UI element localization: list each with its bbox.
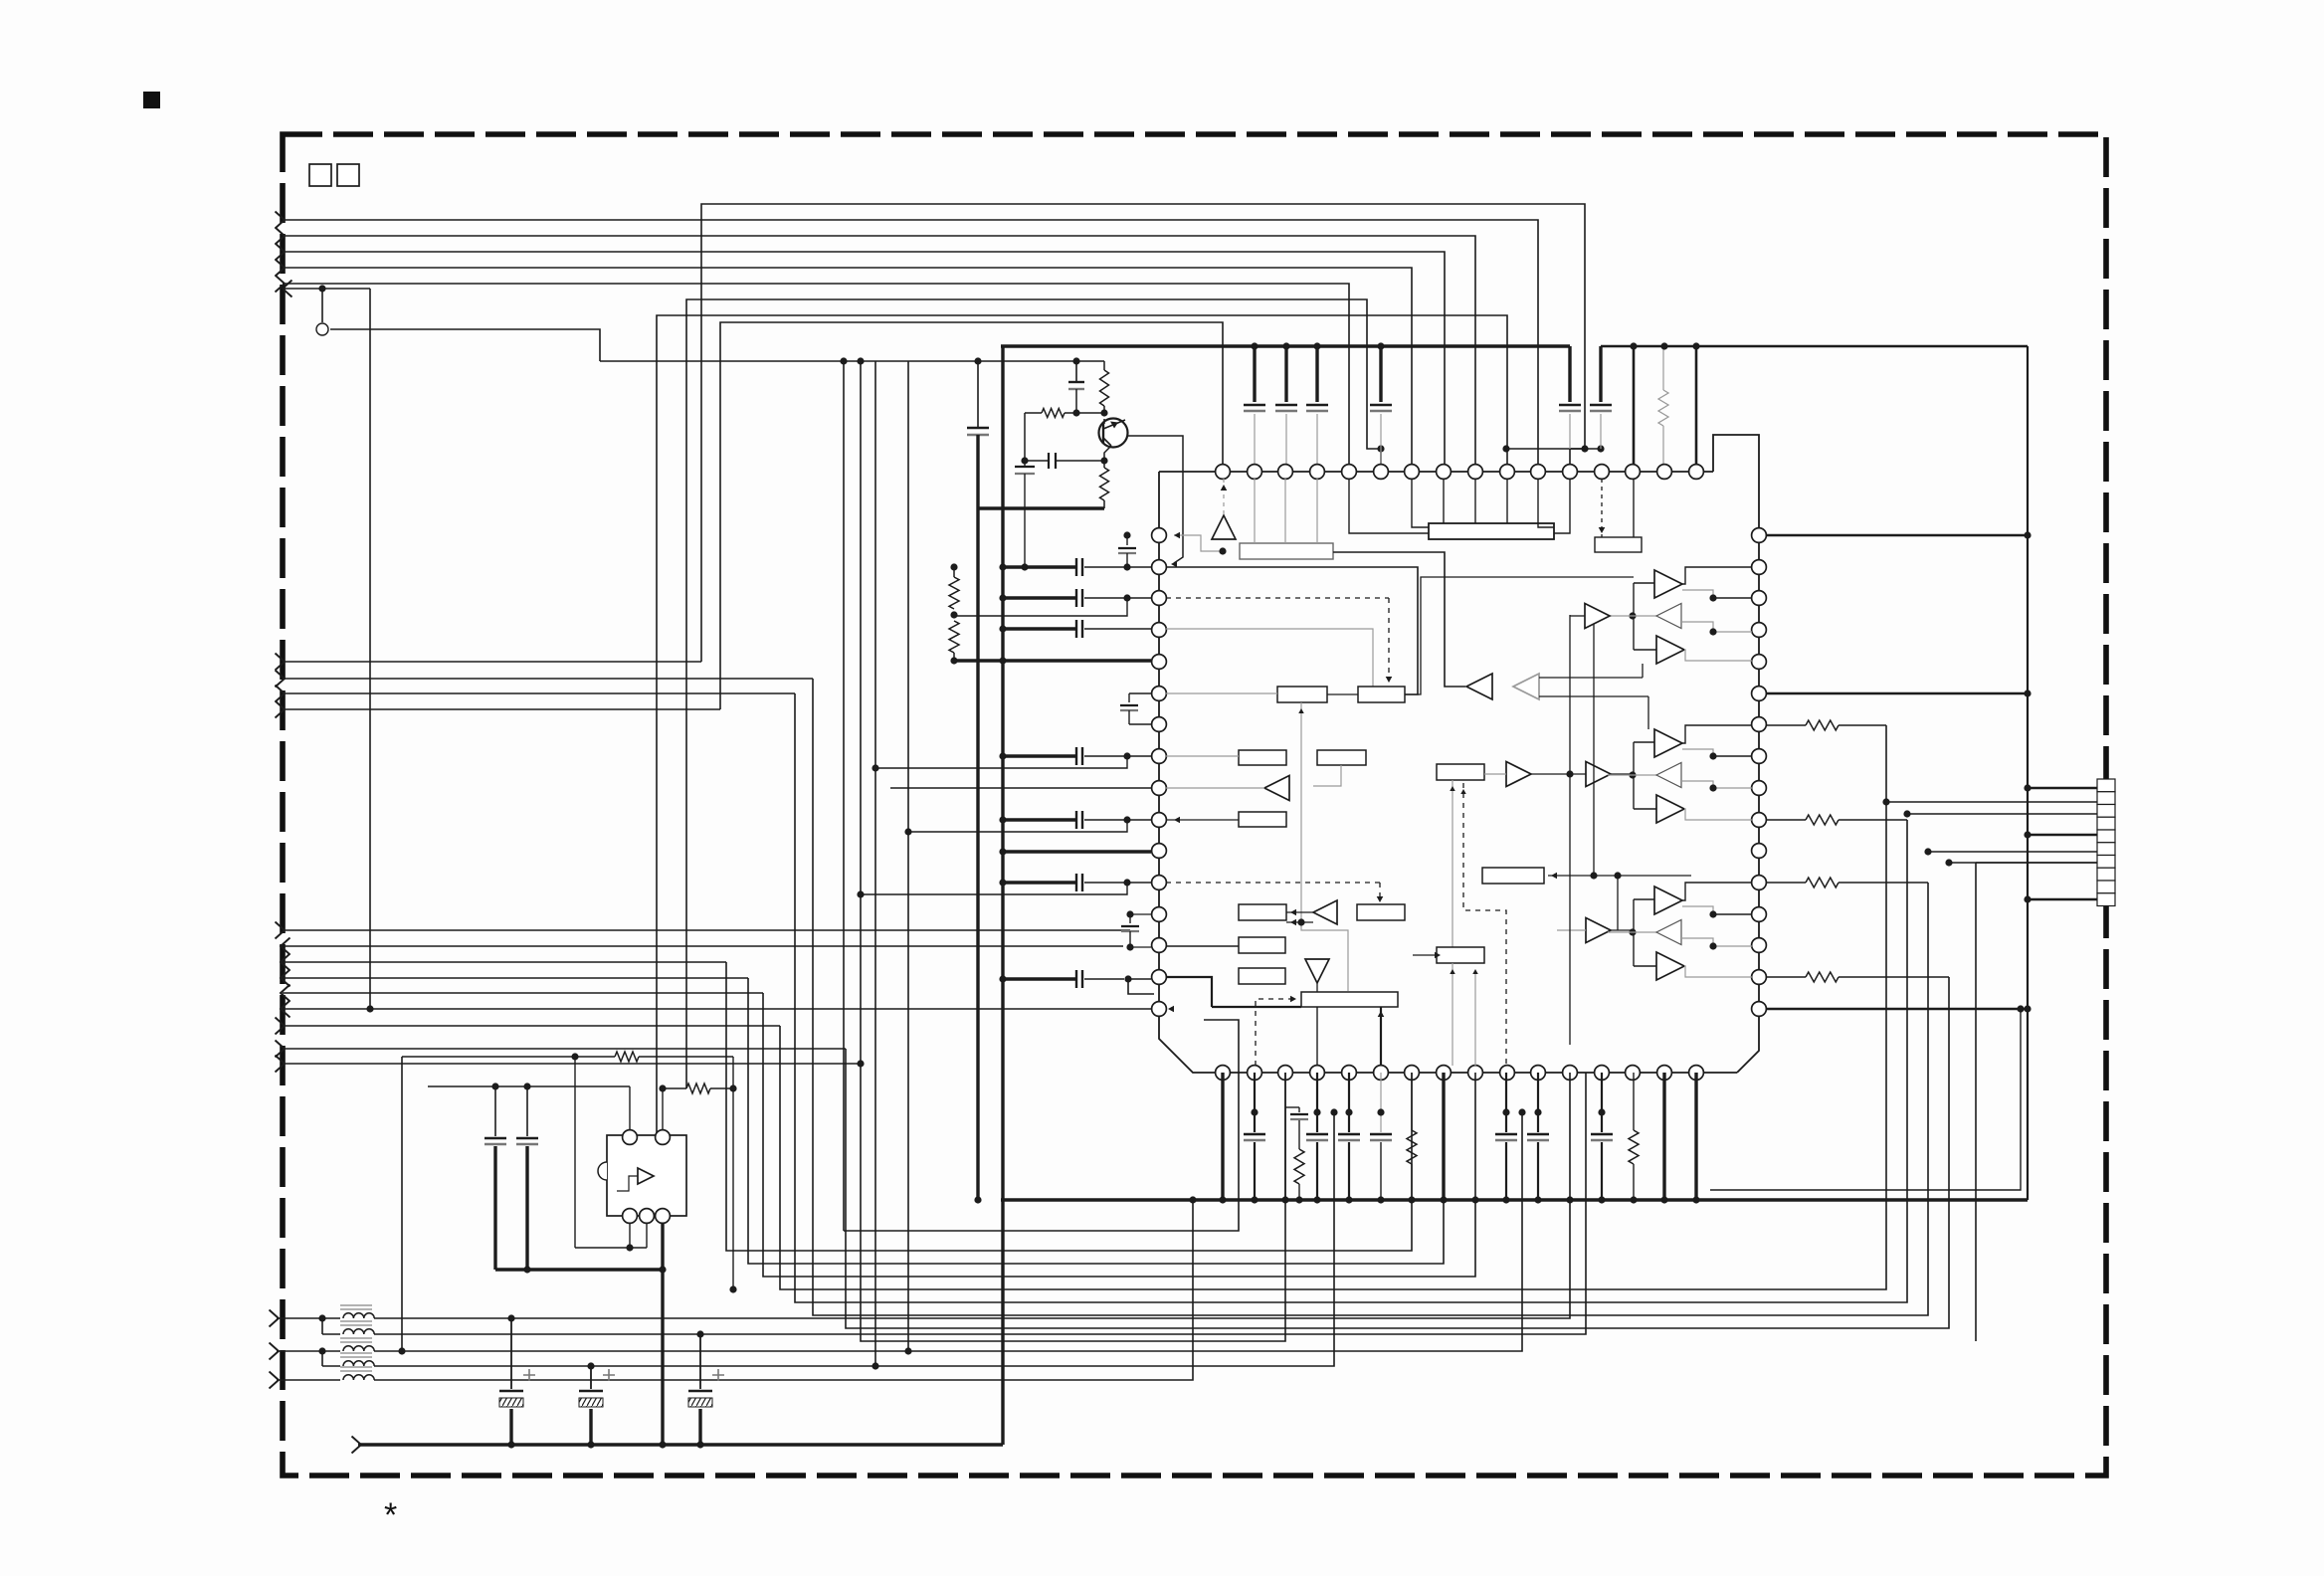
junction: [1709, 784, 1716, 791]
IC pin: [1216, 465, 1231, 480]
IC pin: [1342, 465, 1357, 480]
inductor: [343, 1361, 374, 1366]
junction: [2017, 1005, 2024, 1012]
IC pin: [1595, 465, 1610, 480]
wire: [1633, 479, 1635, 537]
IC pin: [1563, 465, 1578, 480]
amplifier: [638, 1168, 654, 1184]
wire: [1301, 925, 1348, 991]
block: [1239, 904, 1286, 920]
wire: [277, 1317, 340, 1319]
capacitor: [1015, 466, 1035, 468]
connector chevron: [276, 1041, 286, 1058]
amplifier: [1313, 900, 1337, 924]
junction: [1502, 445, 1509, 452]
wire: [574, 1057, 576, 1248]
wire: [1569, 615, 1571, 1045]
power rail: [1001, 344, 1570, 347]
amplifier: [1513, 674, 1539, 699]
IC pin: [1689, 1066, 1704, 1081]
IC pin: [1468, 1066, 1483, 1081]
junction: [1630, 342, 1637, 349]
wire: [1412, 480, 1429, 527]
junction: [318, 1314, 325, 1321]
capacitor electrolytic: [699, 1334, 701, 1389]
wire: [1333, 552, 1465, 687]
wire: [629, 1223, 631, 1248]
wire: [1601, 479, 1603, 537]
wire: [321, 1318, 323, 1334]
svg-text:*: *: [384, 1496, 397, 1534]
resistor: [1662, 346, 1664, 390]
wire: [2028, 898, 2097, 901]
wire: [1084, 882, 1151, 884]
wire: [1084, 628, 1151, 630]
wire: [1634, 741, 1654, 743]
wire: [283, 961, 726, 963]
wire: [1166, 755, 1239, 757]
wire: [908, 820, 1127, 832]
junction: [1219, 1196, 1226, 1203]
ground link: [495, 1268, 663, 1271]
junction: [974, 1196, 981, 1203]
wire: [1084, 978, 1124, 980]
IC pin: [1595, 1066, 1610, 1081]
wire: [748, 978, 1444, 1264]
capacitor: [1129, 914, 1131, 923]
wire: [732, 1057, 734, 1289]
resistor: [1042, 409, 1065, 418]
transistor Q1: [1099, 419, 1128, 448]
junction: [1330, 1108, 1337, 1115]
IC pin: [1152, 844, 1167, 859]
capacitor: [1075, 874, 1077, 891]
wire: [1174, 535, 1223, 551]
wire: [1411, 1073, 1413, 1130]
wire: [283, 661, 701, 663]
wire: [1617, 876, 1619, 930]
wire: [1443, 479, 1445, 523]
junction: [2024, 784, 2031, 791]
wire: [1130, 946, 1151, 948]
junction: [1297, 918, 1304, 925]
connector chevron input: [276, 276, 286, 293]
capacitor: [1568, 346, 1571, 402]
wire: [1539, 677, 1643, 679]
wire: [2028, 787, 2097, 790]
block: [1239, 812, 1286, 827]
block: [1239, 968, 1285, 984]
wire: [657, 315, 1507, 1135]
capacitor: [1129, 692, 1151, 694]
wire: [1554, 480, 1570, 533]
wire: [1907, 813, 2097, 815]
connector chevron input: [276, 260, 286, 277]
wire: [1839, 882, 1928, 884]
junction: [318, 285, 325, 292]
wire: [1349, 480, 1429, 533]
legend square 2: [337, 164, 359, 186]
capacitor: [494, 1086, 496, 1136]
wire: [283, 220, 1538, 472]
resistor chain: [953, 567, 955, 577]
wire: [1380, 1007, 1382, 1066]
wire: [795, 693, 1907, 1302]
wire: [283, 284, 1349, 472]
connector chevron: [281, 985, 290, 1002]
junction: [950, 611, 957, 618]
amplifier: [1654, 886, 1682, 914]
wire: [1634, 898, 1654, 900]
wire: [1166, 977, 1212, 1007]
wire: [861, 361, 1285, 1341]
wire: [1710, 1009, 2021, 1190]
connector chevron input: [270, 1372, 280, 1389]
junction: [523, 1266, 530, 1273]
amplifier: [1656, 920, 1681, 945]
wire: [1442, 1073, 1445, 1200]
junction: [1629, 612, 1636, 619]
wire: [1611, 773, 1634, 775]
resistor: [1633, 1073, 1635, 1130]
resistor: [662, 1088, 664, 1130]
wire: [1084, 597, 1151, 599]
junction: [1709, 910, 1716, 917]
IC pin: [1152, 749, 1167, 764]
capacitor: [1380, 1073, 1382, 1132]
wire: [953, 598, 1127, 616]
IC pin: [1152, 781, 1167, 796]
resistor: [402, 1056, 615, 1058]
IC pin: [1405, 465, 1420, 480]
wire: [1713, 945, 1752, 947]
wire: [321, 289, 323, 322]
relay pin: [623, 1209, 638, 1224]
wire: [890, 787, 1151, 789]
wire: [1003, 627, 1076, 630]
wire: [285, 288, 370, 290]
capacitor with resistor: [1298, 1107, 1300, 1112]
amplifier: [1654, 729, 1682, 757]
junction: [1518, 1108, 1525, 1115]
amplifier: [1656, 604, 1681, 629]
wire: [1694, 1073, 1697, 1200]
wire: [283, 945, 1123, 947]
IC pin: [1248, 465, 1262, 480]
IC pin: [1152, 623, 1167, 638]
block: [1277, 687, 1327, 702]
IC pin: [1374, 465, 1389, 480]
wire: [374, 1073, 1570, 1318]
IC pin: [1152, 717, 1167, 732]
wire: [1128, 979, 1154, 994]
junction: [1924, 848, 1931, 855]
IC pin: [1310, 465, 1325, 480]
junction: [398, 1347, 405, 1354]
wire: [1593, 615, 1595, 876]
block: [1437, 764, 1484, 780]
IC pin: [1531, 465, 1546, 480]
wire: [1608, 931, 1657, 933]
resistor: [1766, 976, 1806, 978]
wire: [1168, 1006, 1174, 1013]
wire: [1682, 906, 1713, 914]
wire: [726, 962, 1412, 1251]
wire: [1506, 448, 1601, 450]
wire: [1682, 725, 1752, 743]
junction: [2024, 531, 2031, 538]
amplifier: [1212, 515, 1236, 539]
wire: [1611, 929, 1634, 931]
IC pin: [1152, 560, 1167, 575]
wire: [283, 268, 1412, 472]
junction: [904, 1347, 911, 1354]
legend square 1: [309, 164, 331, 186]
IC pin: [1752, 591, 1767, 606]
wire: [1642, 664, 1644, 678]
wire: [1221, 1073, 1224, 1200]
IC pin: [1152, 591, 1167, 606]
wire: [763, 993, 1475, 1277]
dashed net: [1166, 882, 1380, 884]
connector chevron: [276, 1056, 286, 1073]
junction: [491, 1083, 498, 1089]
junction: [1590, 872, 1597, 879]
junction: [1629, 928, 1636, 935]
junction: [1903, 810, 1910, 817]
amplifier: [1506, 762, 1531, 787]
wire: [330, 329, 600, 361]
wire: [686, 299, 1381, 1088]
IC pin: [1152, 687, 1167, 701]
junction: [507, 1314, 514, 1321]
wire: [1003, 977, 1076, 980]
junction: [696, 1330, 703, 1337]
power rail: [1001, 346, 1004, 1445]
wire: [1506, 479, 1508, 523]
amplifier: [1656, 795, 1684, 823]
junction: [1126, 910, 1133, 917]
block: [1357, 904, 1405, 920]
wire: [428, 1085, 630, 1087]
capacitor: [1254, 1073, 1256, 1132]
wire: [283, 1008, 1151, 1010]
wire: [1003, 881, 1076, 884]
wire: [978, 506, 1104, 509]
block: [1317, 750, 1366, 765]
connector chevron input: [276, 654, 286, 671]
wire: [1886, 801, 2097, 803]
wire: [600, 360, 1104, 362]
IC pin: [1152, 907, 1167, 922]
IC pin: [1152, 528, 1167, 543]
wire: [2028, 834, 2097, 837]
wire: [1452, 780, 1453, 947]
connector chevron: [281, 970, 290, 987]
wire: [1976, 862, 2097, 864]
wire: [283, 992, 763, 994]
wire: [1713, 755, 1752, 757]
amplifier: [1656, 952, 1684, 980]
amplifier: [1654, 570, 1682, 598]
wire: [283, 678, 813, 680]
resistor: [1766, 819, 1806, 821]
resistor: [1103, 361, 1105, 370]
junction: [1709, 752, 1716, 759]
IC pin: [1752, 528, 1767, 543]
IC pin: [1531, 1066, 1546, 1081]
wire: [1682, 590, 1713, 598]
wire: [1682, 567, 1752, 584]
connector chevron: [281, 938, 290, 955]
IC pin: [1689, 465, 1704, 480]
junction: [1629, 771, 1636, 778]
relay pin: [623, 1130, 638, 1145]
wire: [701, 204, 1585, 662]
amplifier: [1656, 636, 1684, 664]
wire: [1682, 622, 1713, 632]
power rail: [1601, 345, 2028, 347]
capacitor: [1075, 747, 1077, 765]
capacitor: [1505, 1073, 1507, 1132]
capacitor: [1316, 1073, 1318, 1132]
wire: [1839, 819, 1907, 821]
junction: [999, 816, 1006, 823]
wire: [907, 361, 909, 1351]
connector chevron: [281, 1001, 290, 1018]
IC pin: [1152, 1002, 1167, 1017]
wire: [844, 1020, 1239, 1231]
amplifier: [1264, 776, 1289, 801]
IC pin: [1437, 1066, 1452, 1081]
op-amp IC U1 outline: [1713, 435, 1759, 1073]
wire: [1713, 631, 1752, 633]
wire: [1713, 787, 1752, 789]
connector chevron ground: [352, 1437, 362, 1454]
wire: [1474, 971, 1476, 1066]
wire: [1682, 938, 1713, 946]
wire: [1713, 597, 1752, 599]
IC pin: [1278, 465, 1293, 480]
wire: [1548, 875, 1691, 877]
junction: [729, 1084, 736, 1091]
wire: [1484, 773, 1506, 775]
IC pin: [1752, 717, 1767, 732]
IC pin: [1216, 1066, 1231, 1081]
wire: [1633, 346, 1636, 472]
junction: [1709, 942, 1716, 949]
block: [1482, 868, 1544, 884]
junction: [999, 752, 1006, 759]
IC pin: [1752, 623, 1767, 638]
amplifier: [1586, 762, 1611, 787]
capacitor: [1075, 970, 1077, 988]
wire: [1254, 479, 1256, 543]
connector chevron output: [283, 281, 292, 297]
IC pin: [1278, 1066, 1293, 1081]
IC pin: [1752, 844, 1767, 859]
block: [1595, 537, 1642, 552]
wire: [1766, 1008, 2028, 1011]
wire: [780, 725, 1886, 1289]
wire: [617, 1176, 638, 1191]
wire: [283, 252, 1445, 472]
wire: [1949, 862, 2097, 864]
block: [1437, 947, 1484, 963]
IC pin: [1752, 560, 1767, 575]
junction: [999, 848, 1006, 855]
junction: [1709, 628, 1716, 635]
wire: [874, 361, 876, 1366]
IC pin: [1374, 1066, 1389, 1081]
wire: [1003, 850, 1151, 853]
inductor: [343, 1313, 374, 1318]
wire: [875, 756, 1127, 768]
wire: [1662, 1073, 1665, 1200]
wire: [1713, 913, 1752, 915]
border frame: [283, 134, 2106, 1476]
wire: [1633, 742, 1635, 809]
connector chevron input: [276, 212, 286, 229]
wire: [1104, 446, 1111, 461]
wire: [283, 1048, 846, 1050]
wire: [1557, 929, 1586, 931]
wire: [1608, 774, 1657, 776]
junction: [587, 1362, 594, 1369]
wire: [1300, 702, 1302, 919]
wire: [369, 289, 371, 1009]
wire: [1316, 1007, 1318, 1066]
junction: [1189, 1196, 1196, 1203]
relay box: [607, 1135, 686, 1216]
block: [1239, 937, 1285, 953]
wire: [646, 1223, 648, 1248]
amplifier: [1305, 959, 1329, 983]
capacitor: [1075, 589, 1077, 607]
capacitor: [1284, 346, 1287, 402]
wire: [374, 1112, 1522, 1351]
inductor: [343, 1329, 374, 1334]
wire: [1538, 480, 1554, 527]
junction: [729, 1285, 736, 1292]
power rail: [2027, 346, 2029, 1200]
junction: [1945, 859, 1952, 866]
wire: [283, 692, 795, 694]
IC pin: [1752, 970, 1767, 985]
wire: [1084, 819, 1151, 821]
capacitor: [1599, 346, 1602, 402]
wire: [1212, 1006, 1301, 1008]
amplifier: [1656, 763, 1681, 788]
junction: [366, 1005, 373, 1012]
junction: [904, 828, 911, 835]
connector chevron: [276, 1018, 286, 1035]
wire: [1682, 781, 1713, 788]
junction: [1313, 342, 1320, 349]
capacitor: [1379, 346, 1382, 402]
junction: [1251, 1108, 1258, 1115]
IC pin: [1657, 465, 1672, 480]
IC pin: [1152, 655, 1167, 670]
wire: [1316, 983, 1318, 992]
inductor: [343, 1346, 374, 1351]
wire: [954, 659, 1151, 662]
wire: [1084, 755, 1151, 757]
connector chevron input: [276, 228, 286, 245]
wire: [1570, 615, 1585, 617]
junction: [1123, 531, 1130, 538]
junction: [1219, 547, 1226, 554]
